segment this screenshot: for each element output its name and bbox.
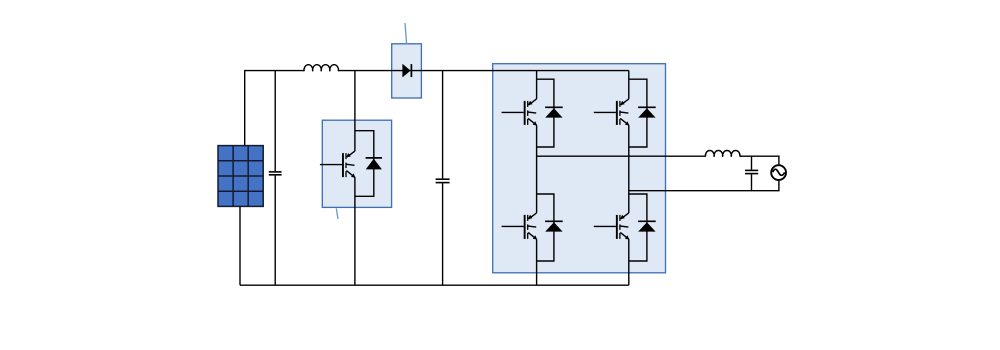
gate stub (blue) above diode module <box>405 23 407 44</box>
boost IGBT Q1 <box>320 151 356 178</box>
boost diode D2 <box>402 64 411 78</box>
wire: top rail (DC bus +) <box>244 70 629 72</box>
wire: AC source bottom to output return <box>629 180 779 191</box>
wire: boost switch emitter (IGBT down to bottom rail) <box>354 177 356 285</box>
PV array panel <box>218 146 263 207</box>
wire: diode branch upper left <box>537 79 554 147</box>
capacitor C3 (output filter capacitor) <box>745 156 758 191</box>
boost IGBT module box <box>322 120 391 207</box>
wire: diode branch lower left <box>537 194 554 261</box>
DC-link capacitor C2 <box>436 71 450 286</box>
inductor L2 (output filter inductor) <box>705 150 740 156</box>
freewheeling diode D3 (upper left) <box>545 107 563 117</box>
wire: bottom rail (DC bus -) <box>240 284 629 286</box>
wire: diode branch upper right <box>629 79 647 147</box>
wire: boost switch collector (top rail down to IGBT) <box>354 71 356 152</box>
wire: left leg lower emitter to bottom rail <box>536 239 538 285</box>
freewheeling diode D5 (lower left) <box>545 221 563 231</box>
inductor L1 (boost inductor) <box>304 65 339 71</box>
wire: inductor to AC source top <box>740 156 779 165</box>
wire: left leg upper collector <box>536 71 538 99</box>
wire: PV positive terminal up to top rail <box>244 71 246 146</box>
anti-parallel diode D1 (boost switch) <box>366 158 382 170</box>
boost diode module box <box>392 44 422 98</box>
gate stub (blue) below boost module <box>336 208 338 219</box>
wire: AC output phase A (left leg midpoint to filter) <box>537 155 706 157</box>
wire: diode branch lower right <box>629 194 647 261</box>
wire: right leg upper collector <box>628 71 630 99</box>
IGBT Q2 (upper left) <box>502 99 538 126</box>
IGBT Q4 (lower left) <box>502 213 538 240</box>
IGBT Q3 (upper right) <box>594 99 630 126</box>
capacitor C1 (PV input capacitor) <box>269 71 282 286</box>
freewheeling diode D4 (upper right) <box>638 107 656 117</box>
H-bridge inverter module box <box>493 64 666 273</box>
AC voltage source V1 (grid) <box>771 165 786 180</box>
wire: anti-parallel diode branch of boost switch <box>355 131 374 197</box>
IGBT Q5 (lower right) <box>594 213 630 240</box>
wire: left leg middle (upper emitter to lower collector) <box>536 125 538 213</box>
wire: PV negative terminal down to bottom rail <box>239 206 241 285</box>
freewheeling diode D6 (lower right) <box>638 221 656 231</box>
wire: right leg lower emitter to bottom rail <box>628 239 630 285</box>
wire: right leg middle <box>628 125 630 213</box>
